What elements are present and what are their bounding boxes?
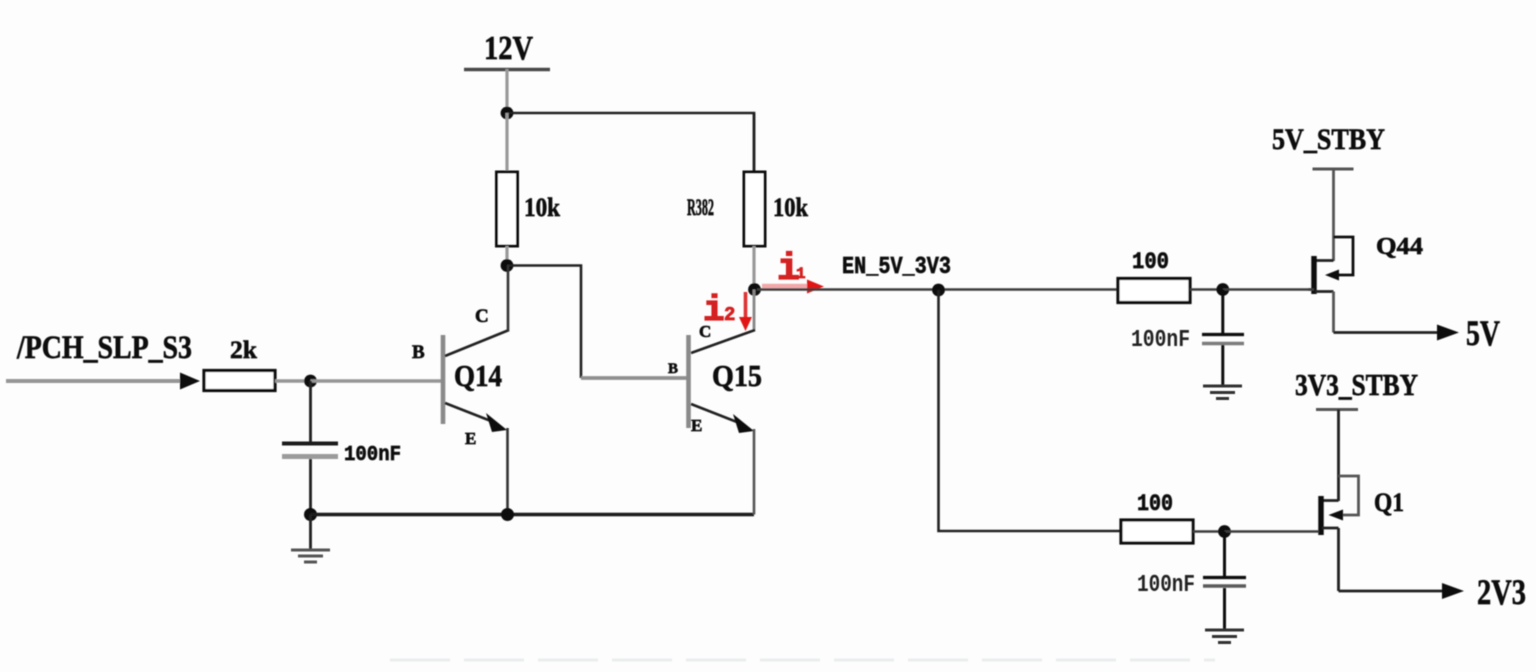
node F junction — [1216, 283, 1229, 296]
ground symbol upper bars — [1203, 385, 1242, 388]
svg-text:Q1: Q1 — [1374, 488, 1404, 517]
svg-text:2: 2 — [724, 304, 735, 326]
ground symbol left bars — [291, 549, 330, 552]
mosfet Q1 drain tap — [1322, 527, 1339, 530]
wire top horizontal to right branch — [507, 113, 754, 172]
capacitor lower 100nF plates — [1203, 576, 1246, 579]
output arrowhead 5V — [1437, 325, 1459, 341]
mosfet Q44 gate bar — [1311, 256, 1317, 294]
output wire 5V — [1334, 331, 1441, 334]
mosfet Q44 drain wire — [1332, 292, 1335, 333]
svg-text:Q44: Q44 — [1376, 234, 1423, 260]
svg-text:100nF: 100nF — [1137, 572, 1195, 599]
transistor Q15 collector diagonal — [691, 330, 755, 353]
svg-text:2k: 2k — [230, 337, 257, 364]
ground symbol lower bars — [1205, 629, 1244, 632]
mosfet Q44 drain tap — [1315, 290, 1334, 293]
transistor Q15 emitter arrowhead — [733, 414, 754, 433]
current annotation i1 arrow — [762, 284, 809, 289]
mosfet Q44 body loop — [1334, 237, 1354, 275]
output wire 2V3 — [1339, 590, 1446, 593]
svg-text:5V: 5V — [1466, 313, 1500, 353]
transistor Q14 collector wire up — [507, 265, 510, 331]
svg-text:E: E — [691, 416, 702, 435]
mosfet Q1 source tap — [1322, 499, 1339, 502]
capacitor C left top plate — [282, 442, 338, 446]
mosfet Q1 body arrowhead — [1329, 510, 1344, 521]
transistor Q14 emitter arrowhead — [486, 413, 507, 432]
wire 100 lower to node G — [1193, 530, 1226, 533]
mosfet Q44 body arrowhead — [1325, 270, 1339, 281]
capacitor C left lead bottom — [309, 459, 312, 515]
mosfet Q44 source wire — [1332, 169, 1335, 261]
transistor Q14 junction on rail — [501, 508, 514, 521]
mosfet Q1 drain wire — [1337, 528, 1340, 591]
mosfet Q1 gate bar — [1318, 496, 1324, 535]
svg-text:100nF: 100nF — [1131, 327, 1190, 354]
svg-text:E: E — [465, 429, 476, 448]
wire R 10k left to node A — [505, 246, 508, 266]
wire node B to Q14 base — [311, 379, 443, 383]
current annotation i2 arrow — [744, 292, 748, 319]
input arrowhead — [180, 373, 200, 390]
svg-text:5V_STBY: 5V_STBY — [1272, 123, 1385, 156]
svg-text:C: C — [475, 306, 489, 327]
transistor Q15 emitter wire down — [753, 429, 756, 515]
capacitor upper 100nF lead — [1221, 290, 1224, 334]
svg-text:Q15: Q15 — [712, 358, 762, 393]
wire node F to Q44 gate — [1223, 288, 1312, 291]
wire 100 upper to node F — [1190, 288, 1224, 291]
svg-text:100: 100 — [1132, 249, 1169, 275]
svg-text:3V3_STBY: 3V3_STBY — [1295, 367, 1418, 402]
wire 2k to node B — [275, 379, 312, 383]
transistor Q14 base bar — [441, 335, 446, 424]
transistor Q15 emitter diagonal — [691, 404, 742, 424]
resistor 2k body — [204, 371, 275, 391]
wire node A to Q15 base — [507, 266, 581, 379]
capacitor lower 100nF lead bottom — [1223, 588, 1226, 629]
node E junction EN net — [932, 284, 945, 297]
capacitor C left bottom plate — [282, 454, 338, 459]
wire to Q15 base horizontal — [581, 376, 688, 380]
svg-text:12V: 12V — [484, 30, 533, 67]
transistor Q14 collector diagonal — [445, 330, 509, 356]
wire bottom rail — [311, 513, 755, 517]
node G junction — [1218, 525, 1231, 538]
svg-text:2V3: 2V3 — [1477, 572, 1526, 612]
svg-text:10k: 10k — [524, 193, 560, 222]
svg-text:Q14: Q14 — [454, 358, 502, 393]
node B junction — [304, 375, 317, 388]
mosfet Q44 gate wire end — [1308, 288, 1314, 291]
wire node G to Q1 gate — [1225, 530, 1320, 533]
resistor R382 body — [744, 172, 765, 246]
node D junction (Q15 collector) — [748, 283, 761, 296]
svg-text:1: 1 — [796, 265, 806, 283]
capacitor lower 100nF lead — [1223, 532, 1226, 577]
wire EN net down branch — [939, 290, 1123, 531]
mosfet Q44 source tap — [1315, 259, 1334, 262]
power symbol 5V_STBY bar — [1313, 168, 1354, 171]
svg-text:100nF: 100nF — [344, 444, 401, 467]
capacitor upper 100nF lead bottom — [1221, 345, 1224, 385]
output arrowhead 2V3 — [1442, 583, 1464, 599]
transistor Q14 emitter diagonal — [445, 403, 496, 423]
capacitor upper 100nF plates — [1202, 333, 1244, 336]
node junction top — [501, 107, 514, 120]
mosfet Q1 source wire — [1337, 410, 1340, 502]
svg-text:i: i — [703, 290, 725, 331]
scan artifact bottom line — [390, 659, 1215, 662]
svg-text:B: B — [668, 361, 678, 377]
transistor Q15 base bar — [686, 335, 691, 428]
power symbol 12V bar — [464, 68, 550, 71]
node A junction (Q14 collector) — [501, 259, 514, 272]
resistor 100 lower body — [1121, 520, 1193, 543]
svg-text:/PCH_SLP_S3: /PCH_SLP_S3 — [16, 330, 192, 366]
node C ground junction — [304, 508, 317, 521]
wire R382 to node D — [752, 246, 755, 290]
resistor 10k left body — [497, 172, 518, 246]
wire node to R 10k left — [505, 113, 508, 172]
mosfet Q1 body loop — [1339, 476, 1359, 515]
wire input — [6, 379, 182, 383]
transistor Q14 emitter wire down — [506, 428, 509, 515]
ground symbol left stem — [309, 515, 312, 550]
svg-text:10k: 10k — [773, 193, 808, 222]
wire EN net horizontal — [757, 288, 1119, 291]
svg-text:100: 100 — [1137, 491, 1173, 517]
resistor 100 upper body — [1118, 279, 1190, 303]
svg-text:EN_5V_3V3: EN_5V_3V3 — [842, 254, 951, 281]
capacitor C left 100nF lead top — [309, 381, 312, 442]
power symbol 3V3_STBY bar — [1316, 408, 1358, 411]
svg-text:B: B — [412, 342, 425, 363]
svg-text:R382: R382 — [687, 195, 714, 220]
transistor Q15 collector wire — [753, 290, 756, 332]
resistor R382 lead top — [753, 113, 756, 172]
wire 12V bar to node — [505, 69, 508, 113]
